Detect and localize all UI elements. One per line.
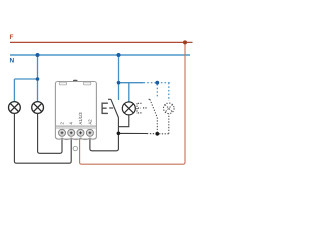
svg-text:N: N bbox=[10, 58, 15, 65]
svg-text:A2: A2 bbox=[87, 119, 92, 125]
svg-text:F: F bbox=[10, 34, 14, 41]
svg-text:A1/1/3: A1/1/3 bbox=[78, 112, 83, 125]
